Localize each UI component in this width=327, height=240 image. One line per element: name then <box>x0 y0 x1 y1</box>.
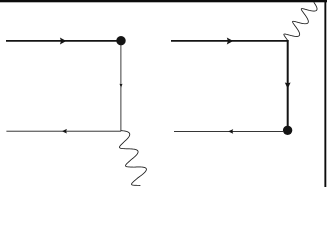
wire: internal fermion propagator (vertical, thin) <box>120 45 122 132</box>
wire: incoming fermion line (top left, thick) <box>6 40 118 42</box>
arrowhead on vertical propagator (points down) <box>120 84 123 88</box>
top frame rule <box>0 0 327 2</box>
arrowhead on bottom-right fermion line (points left) <box>228 129 233 134</box>
photon line (right diagram, wavy, upper right) <box>284 2 317 40</box>
vertex dot (right diagram) <box>283 126 292 135</box>
arrowhead on top-left fermion line (points right) <box>60 38 66 45</box>
arrowhead on right vertical propagator (points down) <box>285 83 291 89</box>
arrowhead on top-right fermion line (points right) <box>227 38 233 45</box>
vertex dot (left diagram) <box>116 36 125 45</box>
wire: outgoing fermion line (bottom left, thin) <box>6 130 121 132</box>
arrowhead on bottom-left fermion line (points left) <box>62 129 67 134</box>
right frame rule <box>324 0 326 187</box>
wire: internal fermion propagator (vertical, thick) <box>287 40 289 127</box>
photon line (left diagram, wavy, lower right) <box>119 131 146 186</box>
wire: incoming fermion line (top right, thick) <box>171 40 289 42</box>
wire: outgoing fermion line (bottom right, thin) <box>174 130 283 132</box>
